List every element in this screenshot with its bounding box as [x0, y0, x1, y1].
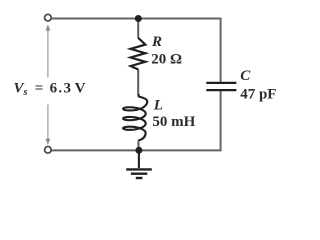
wire right branch lower segment — [220, 91, 222, 150]
svg-text:C: C — [240, 68, 251, 84]
source arrowhead up — [46, 24, 51, 30]
svg-text:20 Ω: 20 Ω — [151, 52, 182, 68]
source arrow line upper — [47, 30, 49, 78]
svg-text:L: L — [153, 98, 163, 114]
source arrow line lower — [47, 105, 49, 140]
source arrowhead down — [46, 139, 51, 145]
capacitor C top plate — [206, 82, 236, 84]
ground symbol — [126, 150, 152, 178]
wire middle branch: top dot to resistor — [137, 19, 139, 38]
svg-text:47 pF: 47 pF — [240, 87, 276, 103]
svg-text:50 mH: 50 mH — [152, 114, 195, 130]
source terminal bottom (open circle) — [45, 147, 52, 154]
resistor R zigzag — [131, 38, 146, 70]
junction dot bottom node — [135, 147, 142, 154]
wire right branch upper segment — [220, 18, 222, 82]
wire middle branch: resistor to inductor — [137, 69, 139, 95]
svg-text:R: R — [151, 34, 162, 50]
source terminal top (open circle) — [45, 14, 52, 21]
capacitor C bottom plate — [206, 89, 236, 91]
wire middle branch: inductor to bottom dot — [138, 140, 140, 151]
wire bottom from source terminal to capacitor branch — [52, 149, 222, 151]
inductor L coil — [123, 94, 147, 140]
junction dot top node — [135, 15, 142, 22]
svg-text:Vs=6.3V: Vs=6.3V — [14, 81, 86, 99]
wire top from source terminal to top-right corner — [52, 18, 220, 20]
